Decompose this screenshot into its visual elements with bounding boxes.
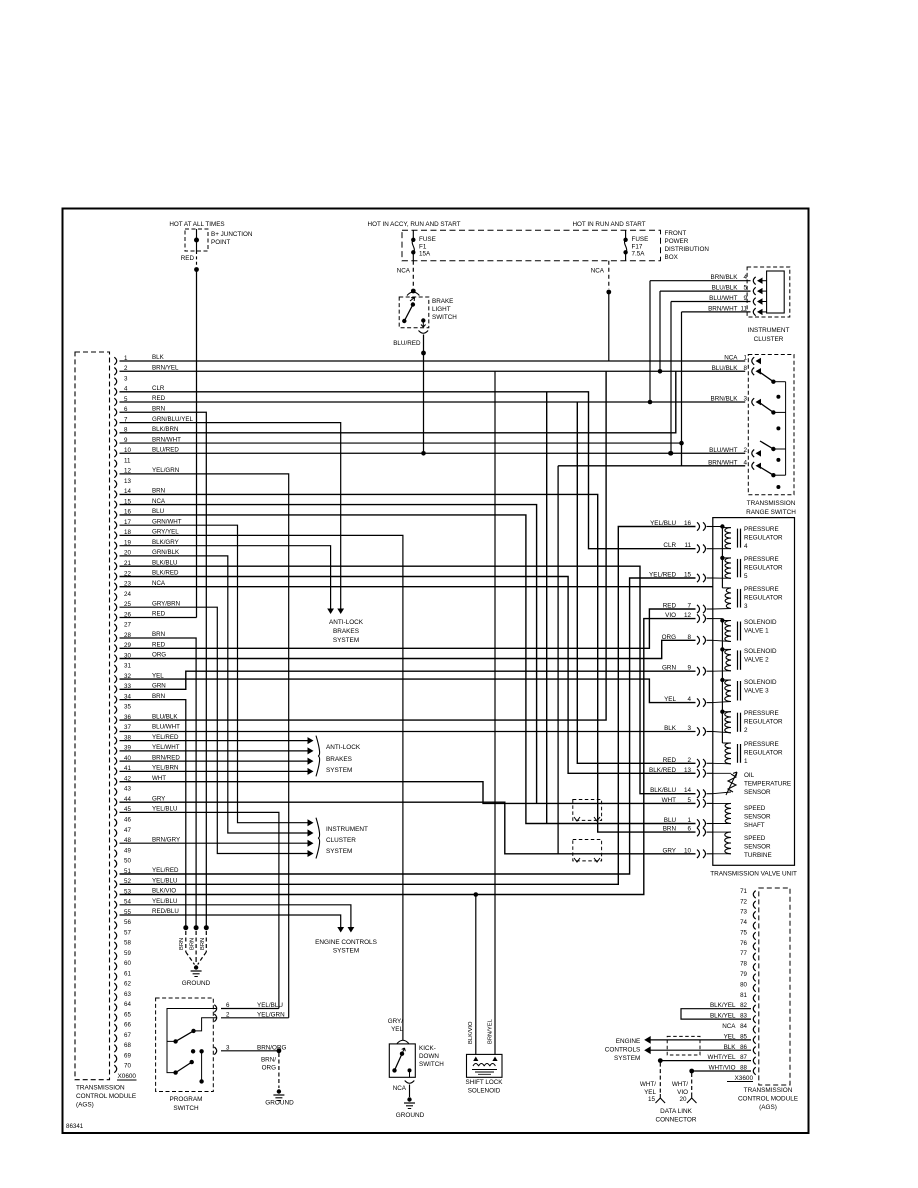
wire row7 GRN/BLU/YEL to anti-lock brakes (down arrow) (120, 423, 341, 612)
svg-text:POWER: POWER (665, 238, 689, 245)
valve unit pin 5 WHT (697, 799, 706, 807)
svg-text:CLUSTER: CLUSTER (754, 336, 784, 343)
TCM pin 61 (114, 973, 116, 981)
svg-text:WHT: WHT (152, 775, 166, 782)
wire row54 YEL/BLU to engine controls arrow (120, 905, 351, 930)
TCM pin 46 (114, 819, 116, 827)
wire row17 GRN/WHT to instrument cluster system arrow (120, 525, 309, 823)
speed sensor shaft (725, 803, 731, 823)
wire BLK pin 86 to engine controls (649, 1049, 751, 1051)
wire BLU/BLK vertical instrument cluster pin 5 to row 2 (659, 291, 661, 371)
svg-text:BRN: BRN (152, 488, 165, 495)
TCM pin 45 (114, 809, 116, 817)
svg-text:KICK-: KICK- (419, 1045, 436, 1052)
TCM pin 42 (114, 778, 116, 786)
TCM pin 68 (114, 1045, 116, 1053)
range switch pin 1 NCA (752, 357, 754, 365)
valve unit pin 14 BLK/BLU (697, 790, 706, 798)
svg-text:7.5A: 7.5A (632, 251, 646, 258)
svg-text:BLU/BLK: BLU/BLK (152, 713, 178, 720)
TCM pin 28 (114, 634, 116, 642)
pressure regulator 4 (725, 528, 731, 549)
TCM pin 66 (114, 1024, 116, 1032)
range switch pin 4 BRN/WHT (752, 462, 754, 470)
solenoid valve 1 (725, 621, 731, 642)
svg-text:71: 71 (740, 888, 747, 895)
solenoid valve 2 (725, 649, 731, 670)
wire RED B+ vertical down to pin 26 row (196, 270, 198, 618)
wire row45 YEL/BLU down to program switch pin 6 (120, 812, 279, 1008)
svg-text:HOT AT ALL TIMES: HOT AT ALL TIMES (169, 221, 224, 228)
svg-text:75: 75 (740, 930, 747, 937)
oil temperature sensor (728, 774, 736, 792)
TCM pin 19 (114, 542, 116, 550)
valve unit common feed wire group 1 (713, 526, 723, 528)
TCM X3600 pin 78 (753, 963, 755, 971)
svg-text:SOLENOID: SOLENOID (468, 1088, 501, 1095)
wire row14 BRN to valve 6 (120, 494, 696, 832)
valve unit pin 1 BLU (697, 819, 706, 827)
svg-text:B+ JUNCTION: B+ JUNCTION (211, 231, 253, 238)
svg-text:SENSOR: SENSOR (744, 789, 771, 796)
svg-text:GROUND: GROUND (396, 1112, 425, 1119)
svg-text:NCA: NCA (393, 1085, 407, 1092)
range switch pin 2 BLU/WHT (752, 450, 754, 458)
TCM pin 32 (114, 675, 116, 683)
svg-text:65: 65 (124, 1011, 131, 1018)
valve unit pin 15 YEL/RED (697, 574, 706, 582)
svg-text:GRN/BLU/YEL: GRN/BLU/YEL (152, 416, 193, 423)
kick-down ground (407, 1097, 411, 1101)
svg-text:60: 60 (124, 960, 131, 967)
transmission range switch dashed box (748, 355, 794, 495)
TCM pin 34 (114, 696, 116, 704)
svg-text:2: 2 (744, 727, 748, 734)
instrument cluster pin 11 BRN/WHT (753, 308, 755, 316)
svg-text:84: 84 (740, 1023, 747, 1030)
wire row44 GRY to valve 10 (120, 802, 696, 854)
wire row1 BLK to range switch pin 1 (120, 360, 746, 362)
wire row26 RED from B+ junction (120, 617, 197, 619)
svg-text:BRN/RED: BRN/RED (152, 754, 180, 761)
svg-text:72: 72 (740, 898, 747, 905)
TCM pin 29 (114, 645, 116, 653)
wire row4 CLR to valve 11 (120, 392, 696, 549)
svg-text:SHAFT: SHAFT (744, 822, 765, 829)
svg-text:ENGINE: ENGINE (616, 1038, 641, 1045)
svg-text:BLK/BRN: BLK/BRN (152, 426, 178, 433)
svg-text:73: 73 (740, 909, 747, 916)
svg-text:SYSTEM: SYSTEM (326, 767, 352, 774)
TCM pin 35 (114, 706, 116, 714)
wire row5 RED to range switch pin 3 (120, 401, 746, 403)
TCM pin 57 (114, 932, 116, 940)
svg-text:5: 5 (744, 573, 748, 580)
wire row30 ORG to valve 8 (120, 640, 696, 658)
svg-text:15A: 15A (419, 251, 431, 258)
svg-text:BLU/WHT: BLU/WHT (152, 724, 180, 731)
svg-text:79: 79 (740, 971, 747, 978)
program switch pin 6 YEL/BLU (214, 1005, 216, 1013)
svg-text:SENSOR: SENSOR (744, 844, 771, 851)
wire B+ down with splice dot (196, 251, 198, 266)
valve unit pin 2 RED (697, 759, 706, 767)
svg-text:4: 4 (744, 543, 748, 550)
svg-text:CONTROL MODULE: CONTROL MODULE (738, 1096, 798, 1103)
TCM X3600 pin 84 (753, 1026, 755, 1034)
TCM X3600 pin 77 (753, 953, 755, 961)
TCM pin 49 (114, 850, 116, 858)
wire row16 BLU to valve 1 (120, 515, 696, 824)
TCM X3600 pin 85 (753, 1036, 755, 1044)
svg-text:SWITCH: SWITCH (432, 314, 457, 321)
svg-text:76: 76 (740, 940, 747, 947)
svg-text:YEL/RED: YEL/RED (152, 734, 179, 741)
instrument cluster dashed box (747, 267, 790, 317)
wire row10 BLU/RED to range switch pin 2 (120, 452, 746, 454)
wire row9 BRN/WHT junction to range pin 4 (120, 442, 682, 444)
wire row20 GRN/BLK to instrument cluster system arrow (120, 556, 309, 833)
TCM pin 11 (114, 460, 116, 468)
TCM pin 21 (114, 562, 116, 570)
svg-text:GROUND: GROUND (182, 980, 211, 987)
TCM pin 59 (114, 952, 116, 960)
wire BLU/WHT vertical instrument cluster pin 9 to row 10 (670, 302, 672, 454)
TCM pin 18 (114, 532, 116, 540)
svg-text:74: 74 (740, 919, 747, 926)
TCM pin 1 (114, 357, 116, 365)
wire row28 BRN to ground (120, 638, 197, 928)
TCM pin 60 (114, 963, 116, 971)
wire row21 BLK/BLU to valve 14 (120, 566, 696, 794)
wire BLK/VIO from row 53 to shift lock (475, 895, 477, 1055)
svg-text:PRESSURE: PRESSURE (744, 556, 779, 563)
svg-text:BRN/WHT: BRN/WHT (152, 436, 181, 443)
svg-text:BRN: BRN (190, 938, 196, 950)
inline connector dashed box (573, 800, 602, 821)
svg-text:BLU/RED: BLU/RED (393, 340, 421, 347)
svg-text:64: 64 (124, 1001, 131, 1008)
TCM pin 9 (114, 439, 116, 447)
svg-text:X3600: X3600 (735, 1075, 754, 1082)
svg-text:TRANSMISSION VALVE UNIT: TRANSMISSION VALVE UNIT (710, 871, 797, 878)
svg-text:58: 58 (124, 940, 131, 947)
data link connector (659, 1063, 661, 1094)
svg-text:GROUND: GROUND (265, 1100, 294, 1107)
TCM pin 16 (114, 511, 116, 519)
TCM pin 7 (114, 419, 116, 427)
svg-text:SYSTEM: SYSTEM (326, 848, 352, 855)
wire row34 BRN to ground (120, 700, 186, 928)
wire BRN/WHT branch left and down (558, 465, 681, 467)
svg-text:YEL: YEL (644, 1089, 656, 1096)
svg-text:F1: F1 (419, 243, 427, 250)
wire row51 YEL/RED to valve 15 (120, 578, 696, 874)
valve unit pin 8 ORG (697, 636, 706, 644)
TCM X3600 pin 88 (753, 1067, 755, 1075)
TCM pin 33 (114, 686, 116, 694)
TCM pin 39 (114, 747, 116, 755)
TCM X3600 pin 80 (753, 984, 755, 992)
svg-text:YEL/RED: YEL/RED (152, 867, 179, 874)
svg-text:FUSE: FUSE (419, 236, 436, 243)
TCM X3600 pin 87 (753, 1057, 755, 1065)
pressure regulator 2 (725, 712, 731, 733)
svg-text:57: 57 (124, 929, 131, 936)
TCM pin 17 (114, 521, 116, 529)
valve unit pin 11 CLR (697, 545, 706, 553)
wire BRN/YEL from row 2 to shift lock (494, 371, 496, 1054)
svg-text:63: 63 (124, 991, 131, 998)
valve unit pin 4 YEL (697, 698, 706, 706)
TCM pin 70 (114, 1065, 116, 1073)
wire BRN/BLK vertical instrument cluster pin 4 to row 5 (649, 281, 651, 402)
transmission valve unit box (713, 518, 795, 866)
svg-text:80: 80 (740, 981, 747, 988)
wire row6 BRN to ground (120, 412, 207, 927)
wire row42 WHT to valve 5 (120, 782, 696, 804)
TCM pin 63 (114, 993, 116, 1001)
svg-text:35: 35 (124, 704, 131, 711)
svg-text:BLU/RED: BLU/RED (152, 447, 179, 454)
fuse F17 7.5A (625, 230, 627, 238)
svg-text:RED: RED (181, 255, 195, 262)
inline connector dashed box (573, 840, 602, 861)
svg-text:81: 81 (740, 992, 747, 999)
wire WHT/VIO pin 88 to data link (692, 1070, 751, 1072)
TCM pin 54 (114, 901, 116, 909)
svg-text:PRESSURE: PRESSURE (744, 710, 779, 717)
svg-text:BLK/GRY: BLK/GRY (152, 539, 179, 546)
svg-text:BRN/: BRN/ (261, 1057, 276, 1064)
wire row15 NCA down to valve 5 row (120, 505, 537, 804)
svg-text:VALVE 3: VALVE 3 (744, 688, 769, 695)
svg-text:BLU: BLU (152, 508, 164, 515)
svg-text:REGULATOR: REGULATOR (744, 719, 783, 726)
svg-text:YEL/BLU: YEL/BLU (152, 898, 177, 905)
wire row23 NCA to valve unit common (120, 586, 713, 588)
svg-text:F17: F17 (632, 243, 643, 250)
TCM pin 65 (114, 1014, 116, 1022)
pressure regulator 5 (725, 558, 731, 578)
svg-text:20: 20 (679, 1096, 687, 1103)
svg-text:CLUSTER: CLUSTER (326, 837, 356, 844)
wire row19 BLK/GRY to anti-lock brakes (down arrow) (120, 546, 331, 612)
TCM pin 52 (114, 881, 116, 889)
svg-text:27: 27 (124, 622, 131, 629)
svg-text:77: 77 (740, 950, 747, 957)
svg-text:REGULATOR: REGULATOR (744, 750, 783, 757)
svg-text:YEL/BLU: YEL/BLU (152, 806, 177, 813)
svg-text:GRY: GRY (152, 795, 165, 802)
TCM X3600 pin 75 (753, 932, 755, 940)
TCM pin 50 (114, 860, 116, 868)
fuse F1 15A (412, 230, 414, 238)
svg-text:SPEED: SPEED (744, 805, 766, 812)
TCM pin 13 (114, 480, 116, 488)
svg-text:3: 3 (124, 375, 128, 382)
svg-text:REGULATOR: REGULATOR (744, 595, 783, 602)
svg-text:15: 15 (648, 1096, 656, 1103)
svg-text:BLK/BLU: BLK/BLU (152, 559, 177, 566)
TCM pin 6 (114, 409, 116, 417)
svg-text:CONTROL MODULE: CONTROL MODULE (76, 1093, 136, 1100)
svg-text:ANTI-LOCK: ANTI-LOCK (326, 744, 361, 751)
svg-text:68: 68 (124, 1042, 131, 1049)
svg-text:YEL: YEL (391, 1026, 403, 1033)
program switch dashed box (156, 998, 214, 1092)
TCM pin 24 (114, 593, 116, 601)
TCM pin 5 (114, 398, 116, 406)
svg-text:CONNECTOR: CONNECTOR (655, 1117, 696, 1124)
speed sensor turbine (725, 832, 731, 854)
TCM X3600 pin 81 (753, 995, 755, 1003)
instrument cluster pin 9 BLU/WHT (753, 298, 755, 306)
TCM pin 41 (114, 768, 116, 776)
wire row48 BRN/GRY to instrument cluster system arrow (120, 842, 309, 844)
svg-text:FRONT: FRONT (665, 230, 687, 237)
svg-text:24: 24 (124, 591, 131, 598)
svg-text:SWITCH: SWITCH (173, 1105, 199, 1112)
svg-text:RED: RED (152, 395, 166, 402)
svg-text:BLK/VIO: BLK/VIO (152, 888, 176, 895)
TCM pin 2 (114, 368, 116, 376)
wire row18 GRY/YEL down to kick-down switch (120, 535, 403, 1040)
svg-text:RED: RED (152, 611, 166, 618)
wire row8 BLK/BRN up to row 2 (120, 371, 676, 433)
svg-text:VALVE 2: VALVE 2 (744, 657, 769, 664)
valve unit pin 13 BLK/RED (697, 769, 706, 777)
valve unit pin 10 GRY (697, 850, 706, 858)
TCM pin 38 (114, 737, 116, 745)
svg-text:78: 78 (740, 961, 747, 968)
TCM pin 36 (114, 716, 116, 724)
wire row33 GRN to valve 9 (120, 671, 696, 689)
wire row52 YEL/BLU to valve 16 (120, 527, 696, 885)
svg-text:RED/BLU: RED/BLU (152, 908, 179, 915)
svg-text:GRY/: GRY/ (388, 1018, 404, 1025)
range switch pin 3 BRN/BLK (752, 398, 754, 406)
svg-text:SWITCH: SWITCH (419, 1061, 444, 1068)
wire row25 GRY/BRN to instrument cluster system arrow (120, 607, 309, 853)
svg-text:BRN/GRY: BRN/GRY (152, 836, 180, 843)
TCM X3600 pin 83 (753, 1015, 755, 1023)
svg-text:X0600: X0600 (118, 1073, 137, 1080)
wires rows38-41 to anti-lock brakes arrows (120, 740, 309, 742)
svg-text:BRN/YEL: BRN/YEL (488, 1018, 494, 1044)
TCM pin 40 (114, 757, 116, 765)
svg-text:BLK/VIO: BLK/VIO (468, 1021, 474, 1044)
wire row32 YEL to valve 4 (120, 679, 696, 703)
valve unit pin 7 RED (697, 605, 706, 613)
valve unit pin 3 BLK (697, 727, 706, 735)
svg-text:43: 43 (124, 786, 131, 793)
svg-text:PRESSURE: PRESSURE (744, 586, 779, 593)
svg-text:TRANSMISSION: TRANSMISSION (744, 1087, 793, 1094)
TCM pin 48 (114, 839, 116, 847)
TCM pin 37 (114, 727, 116, 735)
svg-text:VIO: VIO (677, 1089, 688, 1096)
TCM X3600 pin 73 (753, 911, 755, 919)
program switch internals (167, 1009, 217, 1042)
valve unit pin 9 GRN (697, 667, 706, 675)
TCM pin 15 (114, 501, 116, 509)
svg-text:BRN: BRN (152, 631, 165, 638)
TCM pin 53 (114, 891, 116, 899)
front power distribution box dashed outline (402, 230, 661, 260)
svg-text:YEL/WHT: YEL/WHT (152, 744, 180, 751)
svg-text:WHT/: WHT/ (640, 1081, 656, 1088)
svg-text:SOLENOID: SOLENOID (744, 679, 777, 686)
ground wires BRN x3 (183, 925, 188, 930)
svg-text:46: 46 (124, 817, 131, 824)
wire row53 BLK/VIO to valve 12 (120, 619, 696, 895)
svg-text:HOT IN RUN AND START: HOT IN RUN AND START (572, 221, 645, 228)
TCM X3600 pin 86 (753, 1047, 755, 1055)
svg-text:GRN/BLK: GRN/BLK (152, 549, 180, 556)
wire BRN/ORG to ground (277, 1048, 282, 1053)
wire row2 BRN/YEL to range switch pin 8 (120, 370, 746, 372)
transmission control module X3600 right connector dashed box (759, 888, 790, 1085)
dashed connector box on engine controls wires (667, 1036, 700, 1055)
program switch pin 3 BRN/ORG (214, 1047, 216, 1055)
pressure regulator 3 (725, 588, 731, 609)
TCM pin 3 (114, 378, 116, 386)
svg-text:YEL/BRN: YEL/BRN (152, 765, 178, 772)
wire row55 RED/BLU to engine controls arrow (120, 915, 341, 930)
page border frame (63, 209, 809, 1134)
wire tap from row 4 down to speed sensor row (546, 392, 548, 824)
TCM pin 30 (114, 655, 116, 663)
pressure regulator 1 (725, 743, 731, 764)
TCM X3600 pin 79 (753, 974, 755, 982)
svg-text:VALVE 1: VALVE 1 (744, 628, 769, 635)
wire row12 YEL/GRN down to program switch pin 2 (120, 474, 289, 1018)
TCM pin 23 (114, 583, 116, 591)
svg-text:BRN: BRN (200, 938, 206, 950)
svg-text:NCA: NCA (152, 580, 166, 587)
TCM pin 47 (114, 829, 116, 837)
svg-text:PRESSURE: PRESSURE (744, 741, 779, 748)
transmission control module X0600 left connector dashed box (75, 352, 110, 1080)
TCM pin 43 (114, 788, 116, 796)
TCM pin 69 (114, 1055, 116, 1063)
svg-text:SYSTEM: SYSTEM (333, 948, 359, 955)
svg-text:NCA: NCA (152, 498, 166, 505)
svg-text:66: 66 (124, 1022, 131, 1029)
instrument cluster pin 5 BLU/BLK (753, 287, 755, 295)
svg-text:BRN: BRN (179, 938, 185, 950)
svg-text:YEL: YEL (152, 672, 164, 679)
svg-text:ORG: ORG (152, 652, 166, 659)
svg-text:RED: RED (152, 642, 166, 649)
svg-text:3: 3 (744, 603, 748, 610)
svg-text:YEL/BLU: YEL/BLU (152, 878, 177, 885)
wire YEL pin 85 to engine controls (649, 1039, 751, 1041)
svg-text:INSTRUMENT: INSTRUMENT (748, 327, 790, 334)
svg-text:HOT IN ACCY, RUN AND START: HOT IN ACCY, RUN AND START (368, 221, 461, 228)
TCM pin 58 (114, 942, 116, 950)
valve unit pin 6 BRN (697, 828, 706, 836)
svg-text:DATA LINK: DATA LINK (660, 1108, 692, 1115)
svg-text:SYSTEM: SYSTEM (614, 1055, 640, 1062)
svg-text:67: 67 (124, 1032, 131, 1039)
solenoid valve 3 (725, 680, 731, 702)
svg-text:13: 13 (124, 478, 131, 485)
svg-text:GRN: GRN (152, 683, 166, 690)
svg-text:62: 62 (124, 981, 131, 988)
svg-text:NCA: NCA (722, 1023, 736, 1030)
